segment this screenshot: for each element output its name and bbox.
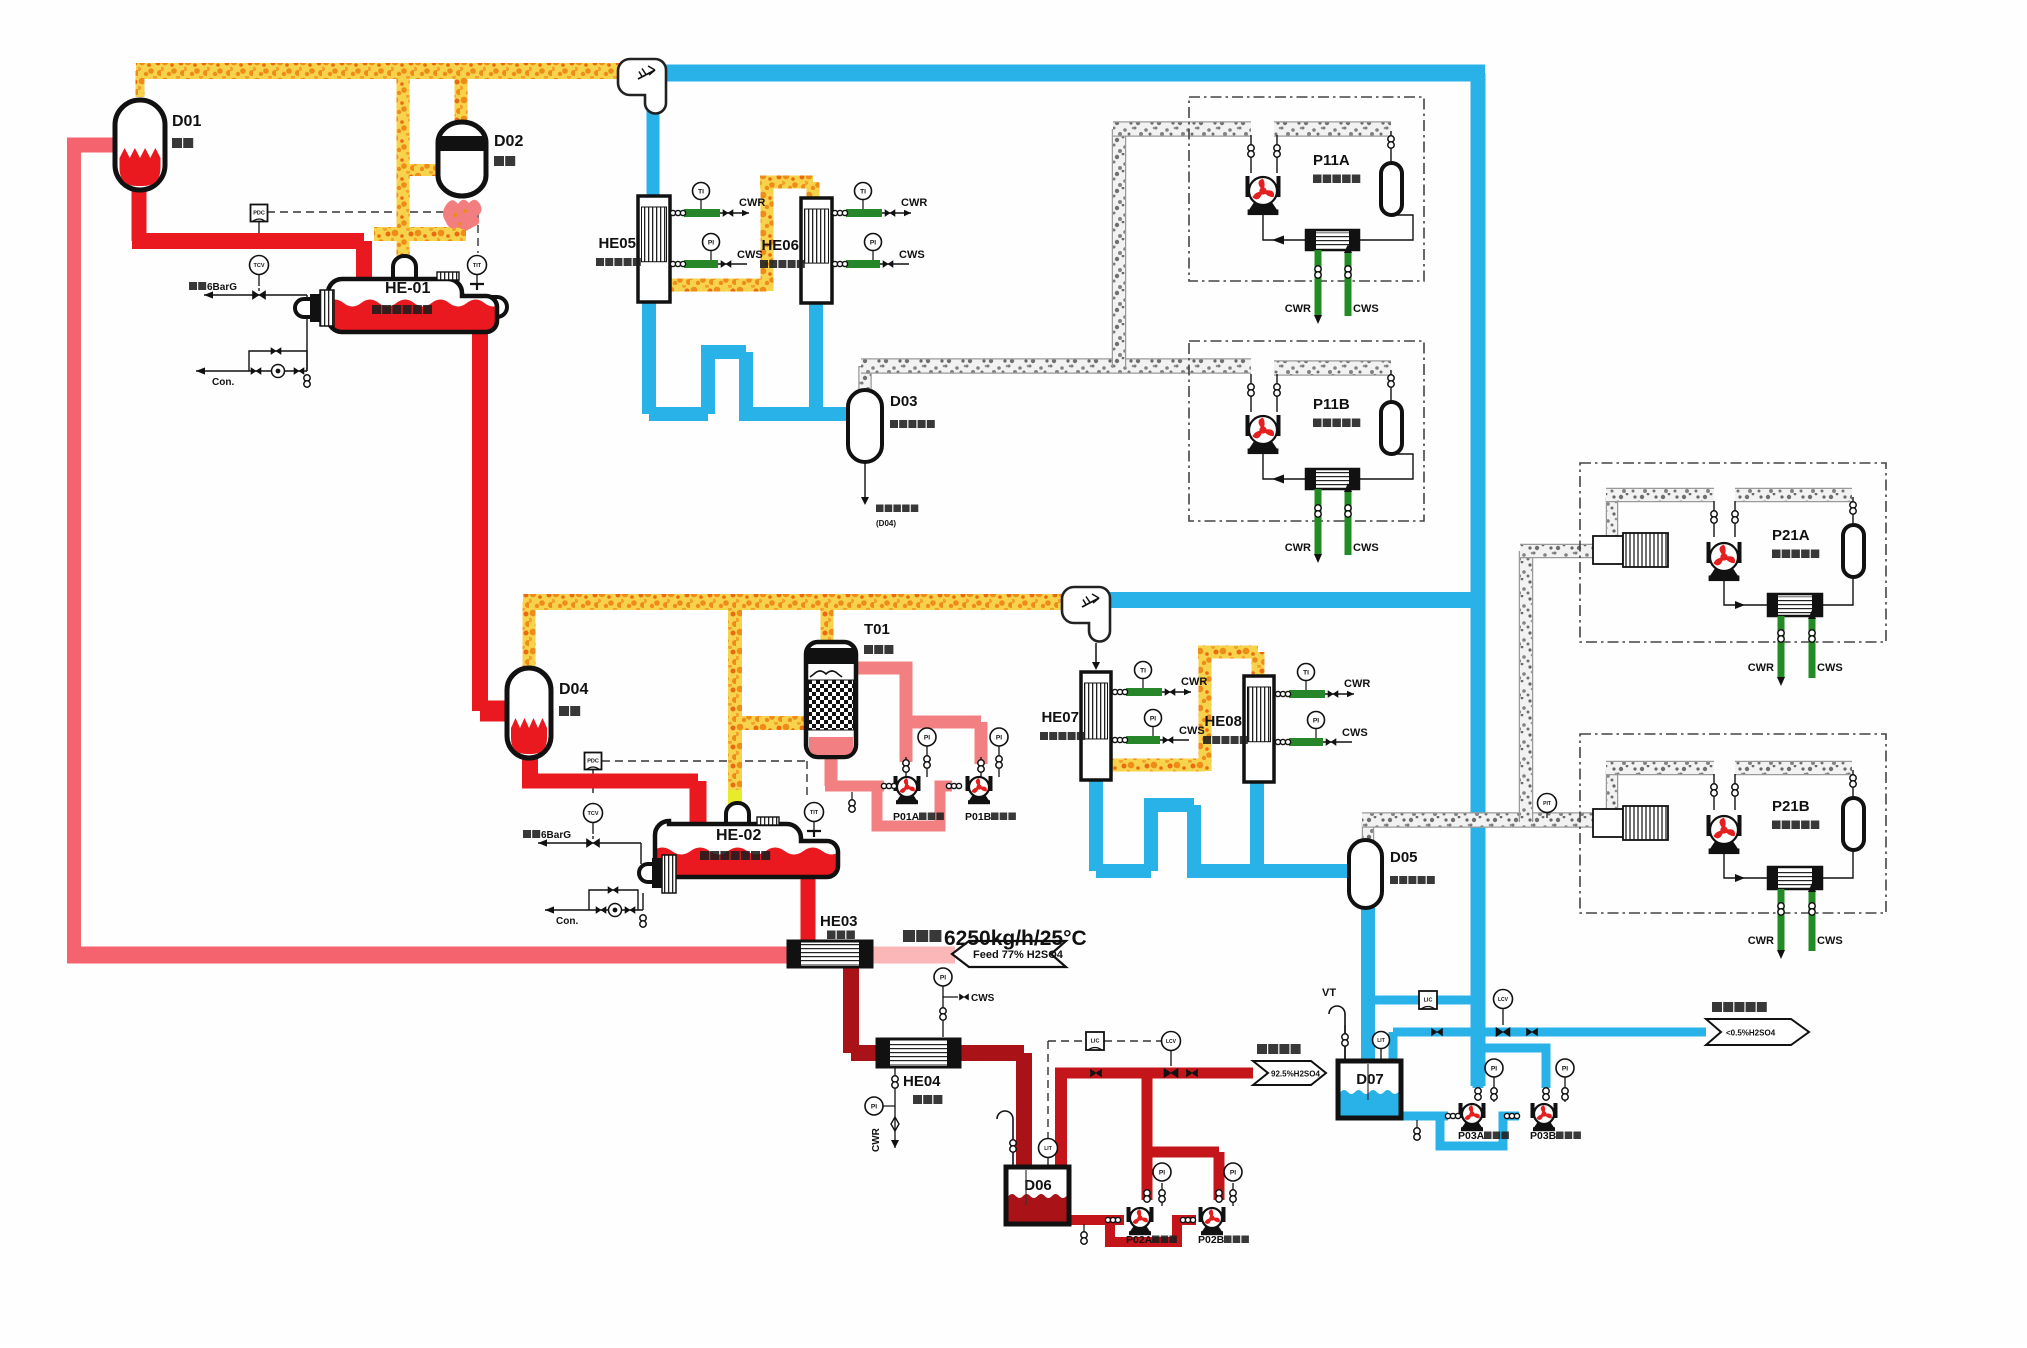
svg-text:P01A: P01A bbox=[893, 811, 920, 823]
svg-text:CWR: CWR bbox=[1748, 662, 1774, 674]
heat exchanger P11B cooler bbox=[1306, 469, 1359, 489]
valve stack bbox=[1216, 1190, 1222, 1196]
svg-text:PI: PI bbox=[1562, 1065, 1568, 1072]
blue pipe train2 header bbox=[1108, 592, 1478, 608]
svg-text:HE07: HE07 bbox=[1041, 709, 1079, 726]
TIT instrument HE-02 bbox=[805, 803, 824, 822]
svg-text:D03: D03 bbox=[890, 393, 918, 410]
HE-01 liquid fill bbox=[326, 300, 502, 335]
valve stack bbox=[1711, 784, 1717, 790]
svg-text:D06: D06 bbox=[1024, 1177, 1052, 1194]
svg-text:LIT: LIT bbox=[1377, 1038, 1385, 1044]
P11A CWS line bbox=[1345, 252, 1352, 316]
HE-02 TCV circle bbox=[584, 804, 603, 823]
yellow pipe into HE06 bbox=[807, 182, 820, 200]
svg-text:PIT: PIT bbox=[1543, 801, 1551, 807]
red pipe branch to P02B bbox=[1147, 1147, 1219, 1158]
P21B valves bbox=[1713, 774, 1715, 810]
pink T01 bottoms to P01A bbox=[825, 750, 838, 786]
HE-02 steam line to nozzle bbox=[640, 843, 642, 864]
valve stack bbox=[1144, 1190, 1150, 1196]
P11B inlet drop/valve bbox=[1250, 374, 1252, 412]
HE06 cn bbox=[760, 260, 768, 268]
HE-01 left nozzle bbox=[295, 299, 312, 317]
P02B cn bbox=[1224, 1236, 1232, 1244]
pink feed line bottom horizontal bbox=[67, 947, 790, 964]
yellow pipe D04 riser bbox=[523, 602, 536, 668]
condensate cn bbox=[1712, 1002, 1722, 1012]
P02A cn bbox=[1152, 1236, 1160, 1244]
P11A unit boundary bbox=[1189, 97, 1424, 281]
svg-text:TIT: TIT bbox=[810, 810, 819, 816]
svg-text:PI: PI bbox=[996, 734, 1002, 741]
T01 packing bbox=[809, 680, 854, 730]
D04 cn bbox=[559, 706, 569, 716]
D03 drain line bbox=[864, 462, 866, 503]
gray pipe riser to P21A bbox=[1519, 551, 1534, 822]
heat exchanger HE03 preheater bbox=[788, 941, 872, 967]
valve stack bbox=[304, 375, 310, 381]
svg-text:D07: D07 bbox=[1356, 1071, 1384, 1088]
valve stack bbox=[1778, 630, 1784, 636]
condenser HE05 bbox=[638, 196, 670, 302]
HE04 cn bbox=[913, 1095, 922, 1104]
svg-text:P03A: P03A bbox=[1458, 1130, 1485, 1142]
gray pipe P11A internal bbox=[1274, 121, 1391, 137]
svg-text:CWR: CWR bbox=[1285, 542, 1311, 554]
blue pipe VT/vent line on D07 bbox=[1344, 1025, 1346, 1062]
P11A inlet drop/valve bbox=[1250, 135, 1252, 173]
svg-text:PI: PI bbox=[708, 239, 714, 246]
valve stack bbox=[1809, 903, 1815, 909]
HE-01 condensate trap loop bbox=[196, 370, 307, 372]
HE-02 manhole hatch bbox=[757, 817, 779, 825]
gray pipe P11A feed bbox=[1113, 121, 1251, 137]
blue pipe product line to arrow bbox=[1393, 1028, 1706, 1037]
gray pipe P21B internal bbox=[1735, 761, 1852, 776]
HE-02 liquid fill bbox=[653, 848, 841, 889]
yellow pipe to HE08 top bbox=[1198, 646, 1258, 659]
T01 cn bbox=[864, 645, 873, 654]
D07 internal line bbox=[1367, 1064, 1369, 1100]
PIT on D05-P21 pipe bbox=[1538, 794, 1557, 813]
pump P03A bbox=[1459, 1103, 1463, 1118]
HE07 CWS line bbox=[1113, 739, 1189, 741]
svg-text:92.5%H2SO4: 92.5%H2SO4 bbox=[1271, 1070, 1320, 1079]
svg-text:TCV: TCV bbox=[588, 811, 599, 817]
vessel pot P21B bbox=[1843, 798, 1864, 850]
valve stack bbox=[1315, 505, 1321, 511]
HE05 CWR line bbox=[671, 212, 749, 214]
svg-text:CWS: CWS bbox=[971, 993, 995, 1004]
valve stack bbox=[1345, 505, 1351, 511]
svg-text:P11B: P11B bbox=[1313, 396, 1350, 413]
P01B cn bbox=[991, 813, 999, 821]
D04 liquid fill bbox=[511, 718, 547, 754]
pump P03B bbox=[1531, 1103, 1535, 1118]
valve stack bbox=[1345, 266, 1351, 272]
P11B cn label bbox=[1313, 419, 1322, 428]
gray pipe D03 riser bbox=[858, 366, 872, 392]
valve stack bbox=[1778, 903, 1784, 909]
yellow pipe to D02 top bbox=[455, 64, 468, 128]
svg-text:PI: PI bbox=[1150, 715, 1156, 722]
svg-text:PI: PI bbox=[870, 239, 876, 246]
D07 vent hook VT bbox=[1329, 1006, 1345, 1062]
svg-text:Feed 77% H2SO4: Feed 77% H2SO4 bbox=[973, 949, 1064, 961]
pink pump bypass U bbox=[877, 786, 952, 826]
HE-02 condensate trap loop bbox=[545, 909, 643, 911]
blue pipe main vertical bbox=[1471, 73, 1486, 1086]
red pipe HE-01 outlet to D04 bbox=[472, 318, 488, 711]
P21A valves bbox=[1713, 501, 1715, 537]
D07 LIC loop bbox=[1419, 991, 1437, 1009]
pale pink feed from arrow to HE03 bbox=[870, 947, 955, 964]
svg-text:CWR: CWR bbox=[1344, 678, 1370, 690]
svg-text:CWS: CWS bbox=[1817, 935, 1843, 947]
vessel D05 bbox=[1349, 840, 1382, 908]
blue pipe P03 bypass U bbox=[1440, 1116, 1519, 1146]
blue pipe P03B discharge bbox=[1483, 1048, 1546, 1088]
pump P02B bbox=[1199, 1207, 1203, 1222]
svg-text:P21B: P21B bbox=[1772, 798, 1810, 815]
svg-text:TI: TI bbox=[860, 188, 866, 195]
pump P11B bbox=[1246, 415, 1250, 436]
HE06 CWS line bbox=[833, 263, 909, 265]
HE08 CWS line bbox=[1276, 741, 1352, 743]
dark red pipe HE03 to HE04 bbox=[843, 965, 859, 1053]
blue pipe HE07/HE08 seal loop to D05 bbox=[1089, 778, 1103, 871]
svg-text:6250kg/h/25°C: 6250kg/h/25°C bbox=[944, 927, 1087, 950]
valve stack bbox=[940, 1008, 946, 1014]
heat exchanger P21A cooler bbox=[1768, 594, 1822, 616]
valve stack bbox=[1711, 511, 1717, 517]
vessel pot P11B bbox=[1381, 402, 1402, 454]
HE06 CWR line bbox=[833, 212, 911, 214]
heat exchanger P21B cooler bbox=[1768, 867, 1822, 889]
HE-02 left nozzle bbox=[639, 864, 656, 882]
svg-text:T01: T01 bbox=[864, 621, 890, 638]
valve stack bbox=[1388, 375, 1394, 381]
svg-text:CWS: CWS bbox=[1342, 727, 1368, 739]
yellow pipe stub to T01 bbox=[741, 716, 806, 730]
svg-text:CWS: CWS bbox=[1179, 725, 1205, 737]
P11B unit boundary bbox=[1189, 341, 1424, 521]
D07 outlet drain valve bbox=[1416, 1120, 1418, 1128]
heat exchanger P11A cooler bbox=[1306, 230, 1359, 250]
yellow pipe riser to HE06 bbox=[761, 182, 774, 291]
svg-text:P02A: P02A bbox=[1126, 1234, 1153, 1246]
P21A unit boundary bbox=[1580, 463, 1886, 642]
D01 cn bbox=[172, 138, 182, 148]
svg-text:LIC: LIC bbox=[1424, 998, 1433, 1004]
valve stack bbox=[924, 756, 930, 762]
pump P01A bbox=[894, 776, 898, 791]
svg-text:HE06: HE06 bbox=[761, 237, 799, 254]
P03B cn bbox=[1556, 1132, 1564, 1140]
HE-02 cn bbox=[700, 851, 709, 860]
D06 outlet drain valve bbox=[1083, 1224, 1085, 1232]
svg-text:P21A: P21A bbox=[1772, 527, 1810, 544]
line PDC1 down to TCV1 bbox=[258, 222, 260, 249]
valve stack bbox=[849, 800, 855, 806]
D01 liquid fill bbox=[120, 148, 161, 186]
svg-text:6BarG: 6BarG bbox=[541, 830, 571, 841]
D06 liquid fill bbox=[1009, 1194, 1067, 1222]
instrument dashed line PDC1 to D02/TIT1 bbox=[267, 211, 478, 213]
blue pipe D05 bottom to D07 bbox=[1361, 905, 1375, 1065]
svg-text:D02: D02 bbox=[494, 133, 523, 150]
yellow pipe header 2 bbox=[523, 594, 1064, 610]
blue pipe HE05/HE06 seal loop to D03 bbox=[642, 299, 656, 414]
HE-01 TCV circle bbox=[250, 256, 269, 275]
product arrow 92.5% bbox=[1253, 1061, 1326, 1085]
vessel pot P11A bbox=[1381, 163, 1402, 215]
TIT instrument HE-01 bbox=[468, 256, 487, 275]
P11A CWR line bbox=[1315, 250, 1322, 316]
blue pipe P03A discharge lower bbox=[1473, 1032, 1484, 1088]
HE07 CWR line bbox=[1113, 691, 1191, 693]
svg-text:HE-01: HE-01 bbox=[385, 280, 430, 297]
T01 bottoms drain valve bbox=[851, 792, 853, 800]
svg-text:CWS: CWS bbox=[1817, 662, 1843, 674]
valve stack bbox=[1850, 775, 1856, 781]
svg-text:TCV: TCV bbox=[254, 263, 265, 269]
svg-text:CWS: CWS bbox=[899, 249, 925, 261]
valve stack bbox=[1342, 1034, 1348, 1040]
svg-text:PI: PI bbox=[924, 734, 930, 741]
gray pipe P21A feed bbox=[1606, 488, 1714, 503]
P03A cn bbox=[1484, 1132, 1492, 1140]
pump P21B bbox=[1707, 815, 1711, 836]
vessel D06 bbox=[1006, 1167, 1069, 1224]
P01 discharge fittings bbox=[905, 757, 907, 777]
vessel D02 bbox=[438, 122, 486, 196]
T01 demister symbol bbox=[810, 671, 842, 677]
svg-text:PDC: PDC bbox=[587, 759, 599, 765]
svg-text:HE-02: HE-02 bbox=[716, 827, 761, 844]
D06 internal line bbox=[1025, 1170, 1027, 1205]
vessel pot P21A bbox=[1843, 525, 1864, 577]
valve stack bbox=[1230, 1190, 1236, 1196]
svg-text:D01: D01 bbox=[172, 113, 201, 130]
T01 liquid bbox=[809, 737, 853, 755]
svg-text:PI: PI bbox=[1230, 1169, 1236, 1176]
orange drip from D02 bbox=[453, 204, 458, 209]
pump P21A bbox=[1707, 542, 1711, 563]
valve stack bbox=[1388, 136, 1394, 142]
condenser HE08 bbox=[1244, 676, 1274, 782]
yellow pipe branch to HE-02 bbox=[728, 602, 742, 806]
valve stack bbox=[892, 1076, 898, 1082]
yellow pipe HE05 out bbox=[669, 279, 767, 292]
valve stack bbox=[1315, 266, 1321, 272]
gray pipe to P21A silencer bbox=[1520, 544, 1596, 559]
P11B CWR line bbox=[1315, 489, 1322, 555]
svg-text:VT: VT bbox=[1322, 987, 1336, 999]
svg-text:CWR: CWR bbox=[901, 197, 927, 209]
valve stack bbox=[1850, 502, 1856, 508]
pink T01 overhead loop bbox=[854, 668, 906, 722]
gray pipe P21B feed bbox=[1606, 761, 1714, 776]
HE03 cn bbox=[827, 931, 836, 940]
condensate arrow <0.5% bbox=[1706, 1019, 1809, 1045]
HE-02 gland bbox=[652, 858, 662, 888]
svg-text:PI: PI bbox=[1313, 717, 1319, 724]
D03 drain cn bbox=[876, 505, 884, 513]
gray pipe D05 to P21B bbox=[1362, 812, 1596, 828]
valve stack bbox=[996, 756, 1002, 762]
pink splash under D02 bbox=[443, 200, 481, 230]
svg-text:TI: TI bbox=[1303, 669, 1309, 676]
svg-text:PDC: PDC bbox=[253, 211, 265, 217]
gray pipe P11B internal bbox=[1274, 360, 1391, 376]
HE07 cn bbox=[1040, 732, 1048, 740]
HE-01 steam valve bbox=[204, 294, 307, 296]
svg-text:P01B: P01B bbox=[965, 811, 992, 823]
HE-01 gland bbox=[310, 294, 320, 322]
valve stack bbox=[978, 760, 984, 766]
vessel D04 bbox=[507, 668, 551, 758]
P01A cn bbox=[919, 813, 927, 821]
svg-text:CWR: CWR bbox=[871, 1127, 882, 1152]
vapor elbow separator 1 bbox=[618, 59, 666, 114]
svg-text:LIC: LIC bbox=[1091, 1039, 1100, 1045]
P21B pump-HX line bbox=[1724, 853, 1768, 878]
blue pipe main header top bbox=[664, 65, 1485, 82]
blue pipe elbow1 to HE05 bbox=[647, 108, 660, 198]
product cn bbox=[1257, 1044, 1267, 1054]
valve stack bbox=[1159, 1190, 1165, 1196]
svg-text:LCV: LCV bbox=[1166, 1039, 1177, 1045]
svg-text:6BarG: 6BarG bbox=[207, 282, 237, 293]
blue pipe D07 suction bbox=[1398, 1112, 1448, 1121]
HE04 CWR outlet bbox=[894, 1067, 896, 1148]
HE-01 cn bbox=[372, 305, 381, 314]
svg-text:TI: TI bbox=[1140, 667, 1146, 674]
HE08 cn bbox=[1203, 736, 1211, 744]
D02 cn bbox=[494, 156, 504, 166]
vapor elbow separator 2 bbox=[1062, 587, 1110, 642]
heat exchanger HE04 cooler bbox=[877, 1039, 960, 1067]
svg-text:<0.5%H2SO4: <0.5%H2SO4 bbox=[1726, 1029, 1776, 1038]
P21A CWS line bbox=[1809, 618, 1816, 678]
valve stack bbox=[1562, 1088, 1568, 1094]
yellow pipe horizontal under D02 bbox=[374, 227, 466, 241]
yellow pipe to HE06 top bbox=[760, 176, 813, 189]
HE05 CWS line bbox=[671, 263, 747, 265]
svg-text:HE08: HE08 bbox=[1204, 713, 1242, 730]
valve stack bbox=[1543, 1088, 1549, 1094]
vessel D03 bbox=[848, 390, 882, 462]
valve stack bbox=[1732, 511, 1738, 517]
svg-text:HE05: HE05 bbox=[598, 235, 636, 252]
yellow pipe header 1 bbox=[136, 63, 620, 79]
svg-text:Con.: Con. bbox=[556, 916, 578, 927]
condenser HE07 bbox=[1081, 672, 1111, 780]
P21B CWR line bbox=[1778, 889, 1785, 951]
red pipe HE-02 outlet to HE03 bbox=[801, 878, 816, 944]
dark red pipe HE04 to D06 bbox=[958, 1045, 1024, 1061]
svg-text:P02B: P02B bbox=[1198, 1234, 1225, 1246]
P11B pump-HX line bbox=[1263, 453, 1306, 479]
P11A pump-HX line bbox=[1263, 214, 1306, 240]
gray pipe D05 stub bbox=[1362, 822, 1375, 840]
yellow pipe into HE08 bbox=[1252, 652, 1265, 678]
svg-text:HE04: HE04 bbox=[903, 1073, 941, 1090]
pink feed line left vertical bbox=[67, 152, 81, 955]
valve stack bbox=[1248, 145, 1254, 151]
red pipe D06 suction bbox=[1069, 1215, 1124, 1225]
svg-text:HE03: HE03 bbox=[820, 913, 858, 930]
svg-text:CWR: CWR bbox=[1181, 676, 1207, 688]
P21A pump-HX line bbox=[1724, 580, 1768, 605]
red pipe P02A riser bbox=[1142, 1073, 1153, 1200]
feed cn bbox=[903, 930, 915, 942]
red pipe D04 outlet to HE-02 bbox=[522, 756, 538, 781]
red pipe pump bypass U bbox=[1110, 1220, 1196, 1242]
yellow tip at HE-02 nozzle bbox=[728, 790, 742, 806]
HE-01 top nozzle bbox=[393, 256, 416, 283]
P21B unit boundary bbox=[1580, 734, 1886, 913]
feed arrow flag bbox=[952, 941, 1066, 967]
svg-text:TI: TI bbox=[698, 188, 704, 195]
valve stack bbox=[1414, 1128, 1420, 1134]
yellow pipe branch to HE-01 bbox=[397, 64, 410, 262]
P11B CWS line bbox=[1345, 491, 1352, 555]
gray pipe P21A silencer riser bbox=[1606, 497, 1619, 536]
yellow pipe riser to HE08 bbox=[1199, 652, 1212, 771]
valve stack bbox=[1732, 784, 1738, 790]
yellow pipe D01 riser bbox=[136, 71, 145, 97]
D06 vent hook bbox=[997, 1111, 1013, 1167]
valve stack bbox=[903, 760, 909, 766]
pump P11A bbox=[1246, 176, 1250, 197]
yellow pipe stub to D02 bbox=[400, 164, 440, 176]
svg-text:TIT: TIT bbox=[473, 263, 482, 269]
svg-text:Con.: Con. bbox=[212, 377, 234, 388]
gray pipe P21B silencer riser bbox=[1606, 770, 1619, 809]
svg-text:D04: D04 bbox=[559, 681, 588, 698]
HE08 CWR line bbox=[1276, 693, 1354, 695]
pink feed into D01 bbox=[67, 138, 120, 153]
valve stack bbox=[1274, 384, 1280, 390]
svg-text:CWR: CWR bbox=[1285, 303, 1311, 315]
valve stack bbox=[1491, 1088, 1497, 1094]
P21A CWR line bbox=[1778, 616, 1785, 678]
P21A cn label bbox=[1772, 550, 1781, 559]
svg-text:CWR: CWR bbox=[739, 197, 765, 209]
svg-text:PI: PI bbox=[1491, 1065, 1497, 1072]
svg-text:(D04): (D04) bbox=[876, 519, 896, 528]
svg-text:CWR: CWR bbox=[1748, 935, 1774, 947]
vessel D07 bbox=[1338, 1061, 1401, 1118]
D02 black band bbox=[441, 136, 484, 151]
D07 liquid fill bbox=[1341, 1090, 1399, 1116]
tower T01 bbox=[806, 642, 856, 757]
P21B silencer bbox=[1593, 809, 1623, 837]
valve stack bbox=[1475, 1088, 1481, 1094]
vessel D01 bbox=[115, 100, 165, 190]
HE05 cn bbox=[596, 258, 604, 266]
svg-text:P03B: P03B bbox=[1530, 1130, 1557, 1142]
instrument dashed line PDC2 to TIT2 bbox=[602, 760, 807, 762]
blue pipe D05-main LIC line bbox=[1368, 996, 1478, 1005]
HE04 CWS inlet bbox=[934, 968, 952, 986]
HE-02 6barg cn bbox=[523, 830, 531, 838]
valve stack bbox=[1010, 1140, 1016, 1146]
D05 cn bbox=[1390, 876, 1398, 884]
